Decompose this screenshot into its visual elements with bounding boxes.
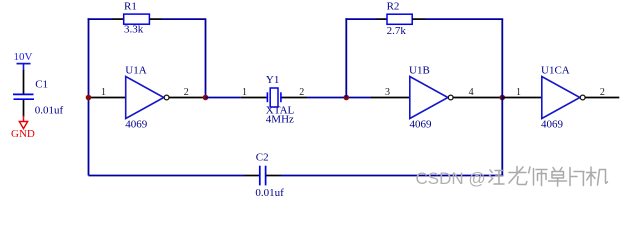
wire bottom loop right bbox=[281, 175, 503, 177]
inverter U1B bbox=[371, 65, 502, 131]
svg-text:GND: GND bbox=[11, 128, 35, 140]
char Dan bbox=[549, 168, 567, 187]
svg-text:C2: C2 bbox=[256, 152, 269, 164]
wire R2 left vertical bbox=[345, 18, 347, 97]
svg-text:U1B: U1B bbox=[409, 65, 430, 77]
svg-text:1: 1 bbox=[101, 87, 106, 98]
svg-text:U1A: U1A bbox=[125, 65, 146, 77]
inverter U1A bbox=[89, 65, 206, 131]
char Lao bbox=[509, 167, 527, 185]
svg-text:1: 1 bbox=[516, 87, 521, 98]
svg-text:3: 3 bbox=[385, 87, 390, 98]
wire R2 top left bbox=[345, 18, 377, 20]
svg-text:4MHz: 4MHz bbox=[266, 114, 294, 126]
svg-text:1: 1 bbox=[242, 87, 247, 98]
svg-text:0.01uf: 0.01uf bbox=[35, 105, 64, 117]
capacitor C2 bbox=[245, 152, 285, 199]
svg-text:4069: 4069 bbox=[410, 119, 433, 131]
svg-text:U1CA: U1CA bbox=[541, 65, 570, 77]
wire crystal to U1B bbox=[307, 97, 372, 99]
crystal Y1 bbox=[241, 74, 307, 126]
watermark CJK glyphs bbox=[489, 167, 608, 187]
wire R1 top right bbox=[162, 18, 206, 20]
power 10V bbox=[14, 51, 33, 71]
svg-text:0.01uf: 0.01uf bbox=[255, 187, 284, 197]
svg-text:3.3k: 3.3k bbox=[124, 24, 144, 36]
wire R1 right vertical bbox=[205, 19, 207, 97]
svg-text:Y1: Y1 bbox=[266, 74, 279, 86]
char Shi bbox=[529, 167, 547, 186]
svg-text:4: 4 bbox=[469, 87, 474, 98]
resistor R1 bbox=[113, 1, 163, 36]
svg-text:2: 2 bbox=[299, 87, 304, 98]
svg-text:4069: 4069 bbox=[541, 119, 564, 131]
wire bottom loop left bbox=[89, 175, 245, 177]
wire R1 top left bbox=[88, 18, 113, 20]
wire left vertical bbox=[88, 18, 90, 175]
svg-text:2: 2 bbox=[600, 87, 605, 98]
svg-text:CSDN @: CSDN @ bbox=[416, 169, 486, 188]
svg-text:2: 2 bbox=[184, 87, 189, 98]
svg-text:C1: C1 bbox=[35, 79, 48, 91]
ground GND bbox=[11, 116, 35, 141]
svg-text:R1: R1 bbox=[124, 1, 137, 13]
inverter U1CA bbox=[502, 65, 619, 131]
wire to crystal bbox=[206, 97, 241, 99]
svg-text:4069: 4069 bbox=[125, 119, 148, 131]
junction node U1A output bbox=[203, 95, 209, 101]
char Wang bbox=[489, 170, 504, 184]
wire R2 top right bbox=[425, 18, 503, 20]
char Pian bbox=[570, 168, 584, 186]
junction node U1B output bbox=[500, 95, 506, 101]
junction node U1B input bbox=[344, 95, 350, 101]
junction node U1A input bbox=[86, 95, 92, 101]
wire R2 right vertical down to C2 loop bbox=[501, 19, 503, 176]
char Ji bbox=[587, 167, 608, 186]
svg-text:10V: 10V bbox=[14, 51, 33, 63]
capacitor C1 bbox=[13, 70, 63, 117]
svg-text:2.7k: 2.7k bbox=[387, 25, 407, 37]
resistor R2 bbox=[377, 1, 425, 37]
svg-text:R2: R2 bbox=[387, 1, 400, 13]
